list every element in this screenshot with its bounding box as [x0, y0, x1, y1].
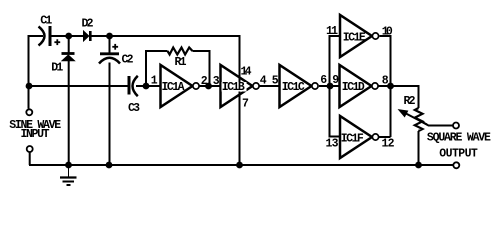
- op-amp inverter IC1C: [280, 65, 319, 107]
- node pin1 R1: [143, 83, 150, 90]
- diode D2: [84, 31, 91, 41]
- svg-text:IC1B: IC1B: [222, 81, 245, 94]
- C1 plus sign: [54, 39, 60, 45]
- node pin8: [387, 83, 394, 90]
- wire C2 top: [109, 36, 111, 53]
- node D1 ground: [65, 162, 72, 169]
- svg-text:5: 5: [272, 75, 279, 88]
- svg-text:D2: D2: [82, 18, 94, 31]
- op-amp inverter IC1A: [161, 65, 200, 107]
- label IC1B: [222, 81, 247, 94]
- svg-text:8: 8: [382, 75, 389, 88]
- wire bottom ground rail: [29, 164, 453, 166]
- svg-text:R2: R2: [404, 95, 416, 108]
- diode D1: [62, 54, 75, 61]
- op-amp inverter IC1E: [340, 15, 379, 57]
- svg-text:10: 10: [382, 26, 393, 39]
- terminal square output top: [453, 123, 459, 129]
- wire pin2 to pin3: [200, 85, 221, 87]
- svg-text:2: 2: [201, 75, 208, 88]
- wire IC1E output to node8: [380, 36, 391, 137]
- wire C2 bottom: [109, 63, 111, 166]
- svg-text:D1: D1: [51, 62, 63, 75]
- wire R2 wiper tap: [423, 122, 453, 125]
- capacitor C2: [99, 54, 120, 64]
- op-amp inverter IC1B: [221, 65, 260, 107]
- wire pin8 to R2 corner: [379, 86, 419, 108]
- svg-text:6: 6: [320, 74, 327, 87]
- wire pin4 to pin5: [260, 85, 280, 87]
- svg-text:11: 11: [326, 25, 338, 38]
- wire R2 bottom: [418, 131, 420, 165]
- svg-text:IC1C: IC1C: [282, 81, 305, 94]
- capacitor C3: [129, 76, 138, 96]
- svg-text:IC1A: IC1A: [162, 81, 185, 94]
- resistor R1: [168, 48, 193, 55]
- wire IC1E IC1F input branch: [330, 36, 340, 137]
- wire top rail D2 to corner: [92, 36, 240, 165]
- capacitor C1: [39, 26, 51, 46]
- wire C3 to IC1A: [136, 85, 161, 87]
- svg-text:C1: C1: [40, 15, 52, 28]
- svg-text:IC1F: IC1F: [341, 132, 364, 145]
- svg-text:INPUT: INPUT: [21, 128, 50, 141]
- C2 plus sign: [112, 44, 118, 50]
- node C2 ground: [106, 162, 113, 169]
- svg-text:9: 9: [332, 74, 339, 87]
- ground: [60, 165, 77, 185]
- wire main input row: [29, 85, 128, 87]
- potentiometer R2: [405, 108, 427, 131]
- terminal sine input top: [26, 109, 32, 115]
- terminal sine input bottom: [27, 146, 33, 152]
- R2 wiper arrowhead: [399, 110, 408, 117]
- op-amp inverter IC1D: [340, 65, 379, 107]
- svg-text:4: 4: [260, 75, 267, 88]
- wire pin6 to pin9: [319, 85, 340, 87]
- node pin6 pin9: [327, 83, 334, 90]
- node D1 top rail: [65, 33, 72, 40]
- svg-text:13: 13: [326, 138, 339, 151]
- svg-text:R1: R1: [175, 56, 187, 69]
- node R2 ground: [415, 162, 422, 169]
- wire IC1F output: [378, 136, 391, 138]
- svg-text:7: 7: [242, 98, 249, 111]
- svg-text:12: 12: [382, 137, 395, 150]
- svg-text:3: 3: [213, 75, 220, 88]
- wire D1 top: [68, 36, 70, 53]
- svg-text:1: 1: [151, 75, 158, 88]
- svg-text:IC1D: IC1D: [342, 81, 365, 94]
- node pin7 ground: [236, 162, 243, 169]
- wire R1 right leg: [193, 51, 210, 86]
- wire top rail C1 to D2: [51, 35, 84, 37]
- node pin2 R1: [205, 83, 212, 90]
- node C2 top rail: [106, 33, 113, 40]
- terminal square output bottom: [453, 162, 459, 168]
- op-amp inverter IC1F: [340, 116, 379, 158]
- node input branch: [26, 83, 33, 90]
- wire input terminal lower: [29, 153, 31, 166]
- svg-text:C2: C2: [122, 54, 134, 67]
- svg-text:IC1E: IC1E: [343, 31, 366, 44]
- wire top rail left: [29, 36, 44, 109]
- svg-text:OUTPUT: OUTPUT: [439, 148, 478, 161]
- wire D1 bottom: [68, 61, 70, 166]
- svg-text:C3: C3: [128, 102, 140, 115]
- svg-text:SQUARE WAVE: SQUARE WAVE: [427, 131, 491, 144]
- svg-text:14: 14: [241, 66, 252, 79]
- wire R1 feedback loop: [146, 51, 168, 86]
